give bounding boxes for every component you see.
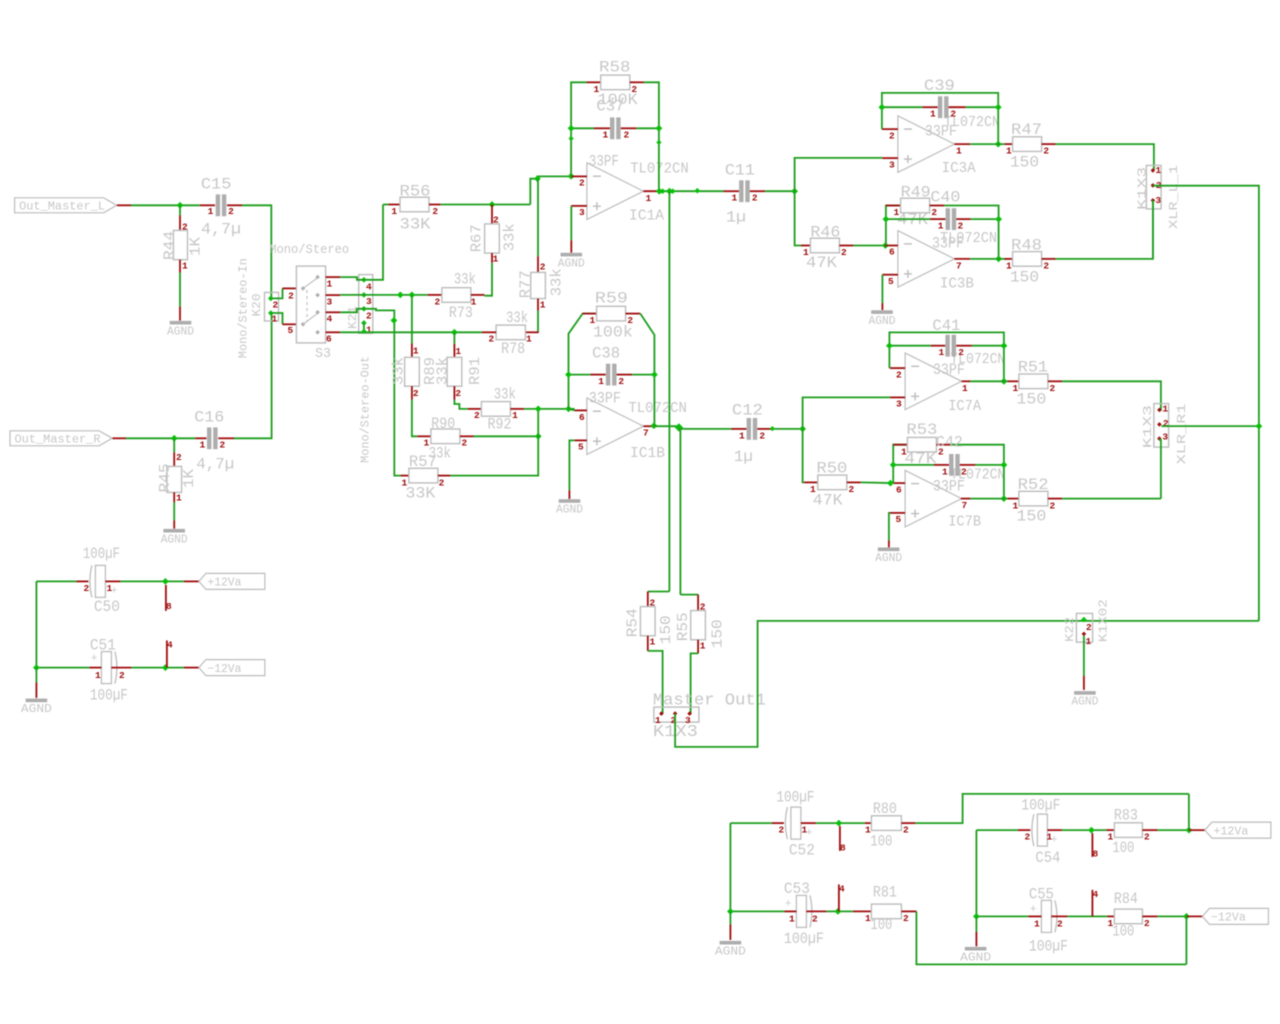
resistor R77 [537, 179, 539, 257]
svg-text:150: 150 [1016, 391, 1046, 409]
svg-text:R83: R83 [1114, 807, 1138, 825]
wire IC1A pin3 to AGND [570, 206, 572, 240]
node junction R56/R77 node [534, 175, 541, 182]
svg-text:XLR_L_1: XLR_L_1 [1167, 165, 1181, 229]
svg-text:5: 5 [288, 325, 294, 336]
svg-text:2: 2 [455, 388, 461, 399]
svg-text:5: 5 [578, 442, 584, 453]
wire R50 pin2 to IC7B pin6 [861, 481, 894, 484]
node junction row3 a [397, 292, 404, 299]
svg-text:R48: R48 [1011, 236, 1042, 254]
svg-text:100µF: 100µF [1021, 797, 1060, 815]
svg-text:2: 2 [958, 221, 964, 232]
power flag -12Va left [199, 660, 265, 676]
wire K20 pin2 to S3 pin2 [271, 288, 283, 298]
node junction AGND C53 [727, 908, 734, 915]
svg-text:AGND: AGND [167, 325, 194, 338]
wire R90 pin2 to R57 node [474, 435, 539, 437]
svg-text:150: 150 [1016, 508, 1046, 526]
resistor R50 [804, 481, 818, 483]
svg-text:33k: 33k [503, 223, 519, 251]
svg-text:2: 2 [182, 222, 188, 233]
svg-text:AGND: AGND [875, 552, 902, 565]
wire K21 pin2 down to R57 pin1 [364, 309, 401, 476]
wire R48 pin2 to XLR pin3 [1056, 200, 1153, 259]
svg-text:+: + [111, 585, 118, 597]
wire MasterOut pin2 to K22 net [675, 621, 1259, 747]
svg-text:1: 1 [598, 376, 604, 387]
svg-text:R84: R84 [1114, 890, 1138, 908]
node junction C42 left [890, 462, 897, 469]
svg-text:2: 2 [119, 670, 125, 681]
svg-text:1: 1 [956, 146, 962, 157]
svg-text:−12Va: −12Va [1211, 912, 1246, 925]
node junction after C11 [791, 188, 798, 195]
wire C15 to K20 pin2 [242, 205, 271, 298]
svg-text:R47: R47 [1011, 121, 1042, 139]
svg-text:2: 2 [841, 247, 847, 258]
pin4 stub C55 [1091, 890, 1093, 917]
svg-text:3: 3 [1162, 432, 1168, 443]
svg-text:33k: 33k [549, 268, 565, 296]
capacitor C15 [200, 204, 215, 206]
svg-text:6: 6 [579, 412, 585, 423]
svg-text:1µ: 1µ [726, 209, 746, 227]
svg-text:100µF: 100µF [784, 930, 824, 948]
node junction C40 left [883, 216, 890, 223]
svg-text:1: 1 [930, 109, 936, 120]
svg-text:R78: R78 [501, 340, 525, 358]
svg-text:R91: R91 [468, 357, 484, 385]
resistor R55 [691, 611, 706, 640]
node junction pin4 stub C53 [835, 908, 842, 915]
wire R77 pin1 to R78 pin1 [537, 311, 539, 333]
svg-text:33PF: 33PF [933, 361, 965, 379]
svg-text:33K: 33K [400, 215, 432, 233]
svg-text:R50: R50 [816, 460, 847, 478]
wire K20 pin1 to S3 pin5 [271, 313, 283, 324]
svg-text:47K: 47K [813, 491, 844, 509]
capacitor C38 [569, 374, 591, 376]
svg-text:Mono/Stereo: Mono/Stereo [269, 243, 349, 257]
node junction C40 right [995, 216, 1002, 223]
svg-text:100µF: 100µF [90, 687, 128, 705]
svg-text:3: 3 [327, 297, 333, 308]
ground AGND below IC7B [878, 548, 900, 552]
svg-text:1: 1 [366, 324, 372, 335]
op-amp IC7B [905, 470, 962, 527]
svg-text:4: 4 [839, 883, 845, 894]
svg-text:1: 1 [938, 347, 944, 358]
wire IC3B output to R48 [970, 258, 1009, 260]
ground AGND below C53 [729, 911, 731, 924]
node junction R90 branch at pin6 row [535, 406, 542, 413]
svg-text:1: 1 [1086, 636, 1092, 647]
svg-text:2: 2 [540, 261, 546, 272]
svg-text:1: 1 [789, 914, 795, 925]
svg-text:2: 2 [700, 601, 706, 612]
svg-text:Mono/Stereo-Out: Mono/Stereo-Out [359, 356, 373, 463]
wire pin6 row [569, 409, 575, 411]
svg-text:1K: 1K [189, 237, 205, 256]
svg-text:4: 4 [327, 314, 333, 325]
svg-text:2: 2 [273, 300, 279, 311]
svg-text:1: 1 [95, 670, 101, 681]
node junction on K21 pin2 wire [391, 317, 398, 324]
resistor R89 [411, 343, 413, 357]
svg-text:C42: C42 [936, 434, 963, 452]
svg-text:2: 2 [439, 478, 445, 489]
wire R55 pin1 to MasterOut pin3 [691, 653, 699, 713]
svg-text:2: 2 [176, 452, 182, 463]
wire S3 pin1 to K21 pin4 [340, 277, 364, 280]
resistor R78 [525, 331, 538, 333]
svg-text:8: 8 [166, 601, 172, 612]
svg-text:3: 3 [889, 159, 895, 170]
svg-text:100µF: 100µF [1029, 938, 1068, 956]
svg-text:33k: 33k [454, 271, 476, 289]
svg-text:4: 4 [1093, 889, 1099, 900]
wire K21 pin3 to R73 pin2 [364, 294, 428, 296]
svg-text:1: 1 [731, 193, 737, 204]
svg-text:2: 2 [649, 597, 655, 608]
svg-text:R54: R54 [626, 608, 642, 637]
svg-text:1: 1 [199, 439, 205, 450]
svg-text:5: 5 [896, 514, 902, 525]
svg-text:33k: 33k [494, 385, 516, 403]
node junction output to master-out [666, 188, 673, 195]
svg-text:AGND: AGND [715, 945, 746, 958]
wire IC1A output down to master out R54 [668, 191, 670, 591]
svg-text:8: 8 [1093, 848, 1099, 859]
resistor R58 [587, 81, 601, 83]
svg-text:7: 7 [956, 260, 962, 271]
svg-text:IC3A: IC3A [942, 161, 976, 177]
svg-text:1: 1 [512, 410, 518, 421]
svg-text:C52: C52 [789, 842, 815, 860]
svg-text:33k: 33k [392, 357, 408, 385]
svg-text:150: 150 [1010, 268, 1039, 286]
op-amp IC3A [898, 116, 955, 173]
svg-text:R45: R45 [158, 464, 174, 493]
ground AGND below C51 [35, 668, 37, 683]
resistor R91 [453, 344, 455, 358]
svg-text:3: 3 [1155, 195, 1161, 206]
svg-text:+12Va: +12Va [1213, 825, 1248, 838]
wire to IC3A pin3 [795, 158, 883, 191]
wire R67 pin1 to R73 pin1 [484, 263, 492, 296]
wire R47 pin2 to XLR pin1 [1056, 144, 1154, 169]
svg-text:6: 6 [889, 247, 895, 258]
ground AGND below R45 [173, 520, 175, 528]
op-amp IC1B [587, 398, 644, 455]
svg-text:1K: 1K [182, 469, 198, 488]
wire R81 pin2 to -12Va rail [916, 911, 1186, 964]
svg-text:C50: C50 [94, 598, 120, 616]
svg-text:1: 1 [455, 346, 461, 357]
node junction after C12 [799, 426, 806, 433]
svg-text:R55: R55 [676, 612, 692, 641]
wire to +12Va flag [184, 580, 199, 582]
svg-text:R92: R92 [488, 415, 512, 433]
wire node up to IC1B pin6 row [537, 409, 539, 436]
connector K1X3 XLR_L_1 [1146, 165, 1161, 209]
node junction -12Va [162, 664, 169, 671]
wire R51 pin2 to XLR_R1 pin1 [1062, 381, 1161, 410]
svg-text:2: 2 [228, 206, 234, 217]
svg-text:C40: C40 [930, 188, 960, 206]
node junction C41 left [886, 342, 893, 349]
svg-text:2: 2 [1024, 832, 1030, 843]
power flag -12Va right [1202, 908, 1268, 924]
svg-text:+: + [806, 827, 813, 839]
svg-text:R59: R59 [595, 289, 628, 307]
wire R56 pin2 to IC1A inverting node [441, 204, 531, 206]
wire C39 loop left [882, 93, 998, 144]
wire R53 pin2 to output vertical [951, 445, 1004, 499]
svg-text:2: 2 [579, 178, 585, 189]
node junction row6 to R91 [451, 329, 458, 336]
S3 pin 4 stub [326, 311, 341, 313]
wire C41 loop left [889, 332, 1004, 381]
wire to R54 pin2 [648, 591, 670, 593]
svg-text:2: 2 [493, 215, 499, 226]
capacitor C42 [893, 464, 934, 466]
svg-text:100: 100 [1112, 839, 1134, 857]
svg-text:AGND: AGND [556, 504, 583, 517]
svg-text:4: 4 [366, 281, 372, 292]
svg-text:2: 2 [1043, 261, 1049, 272]
svg-text:2: 2 [1086, 622, 1092, 633]
svg-text:1: 1 [327, 279, 333, 290]
wire IC1A output row [659, 190, 723, 192]
svg-text:1: 1 [391, 206, 397, 217]
node junction shield [1256, 423, 1263, 430]
svg-text:33PF: 33PF [933, 478, 965, 496]
capacitor C12 [732, 428, 747, 430]
svg-text:4: 4 [167, 639, 173, 650]
wire C16 to K20 pin1 [234, 313, 272, 438]
svg-text:3: 3 [366, 296, 372, 307]
svg-text:2: 2 [413, 388, 419, 399]
svg-text:7: 7 [643, 428, 649, 439]
node junction C41 right [1001, 342, 1008, 349]
svg-text:1: 1 [700, 641, 706, 652]
wire R58 pin2 to output vertical [644, 82, 659, 191]
power flag +12Va left [199, 573, 265, 589]
svg-text:4,7µ: 4,7µ [196, 456, 234, 474]
capacitor C41 [889, 345, 931, 347]
capacitor C39 [882, 106, 923, 108]
wire K21 pin1 to row6 [363, 323, 365, 332]
svg-text:−12Va: −12Va [207, 663, 241, 676]
svg-text:C15: C15 [201, 176, 232, 194]
svg-text:K20: K20 [250, 294, 264, 317]
ground AGND below IC1B [559, 499, 581, 503]
node junction R44 top [177, 202, 184, 209]
net flag Out_Master_L [15, 198, 117, 213]
svg-text:AGND: AGND [960, 951, 991, 964]
resistor R80 [865, 822, 872, 824]
svg-text:2: 2 [961, 466, 967, 477]
svg-text:2: 2 [752, 193, 758, 204]
svg-text:2: 2 [1050, 383, 1056, 394]
node junction +12Va [162, 578, 169, 585]
svg-text:33PF: 33PF [589, 153, 619, 171]
svg-text:1: 1 [942, 466, 948, 477]
node junction C39 right [995, 104, 1002, 111]
wire R89 pin2 to R90 pin1 [412, 400, 417, 437]
svg-text:1: 1 [938, 221, 944, 232]
svg-text:4,7µ: 4,7µ [201, 221, 241, 239]
svg-text:2: 2 [1057, 919, 1063, 930]
resistor R57 [401, 475, 409, 477]
wire R52 pin2 to XLR_R1 pin3 [1062, 498, 1161, 500]
svg-text:C16: C16 [194, 408, 224, 426]
resistor R92 [468, 408, 482, 410]
node junction C37 left [568, 125, 575, 132]
svg-text:AGND: AGND [558, 257, 585, 270]
resistor R54 [640, 607, 655, 636]
op-amp IC1A [587, 163, 644, 220]
svg-text:2: 2 [1043, 146, 1049, 157]
svg-text:2: 2 [778, 825, 784, 836]
svg-text:R67: R67 [470, 224, 486, 252]
svg-text:1: 1 [182, 261, 188, 272]
svg-text:R52: R52 [1018, 476, 1049, 494]
svg-text:2: 2 [950, 109, 956, 120]
ground AGND below IC1A [561, 253, 583, 257]
svg-text:R81: R81 [873, 884, 897, 902]
wire C54/C55 left vertical [975, 830, 977, 916]
svg-text:C54: C54 [1035, 849, 1060, 867]
svg-text:C11: C11 [725, 161, 755, 179]
node junction C39 left [879, 104, 886, 111]
resistor R67 [491, 205, 493, 224]
wire Out_Master_R to C16 [113, 437, 127, 439]
svg-text:2: 2 [618, 376, 624, 387]
node junction AGND C51 [33, 664, 40, 671]
svg-text:R77: R77 [519, 270, 535, 298]
wire to -12Va flag [184, 667, 199, 669]
wire down to R46 [795, 191, 801, 245]
svg-text:2: 2 [903, 825, 909, 836]
power flag +12Va right [1205, 822, 1271, 838]
wire R91 pin2 to R92 pin2 [454, 400, 468, 409]
wire IC3A output to R47 [970, 143, 1004, 145]
wire junction to R89 pin1 [411, 295, 413, 344]
svg-text:2: 2 [1050, 500, 1056, 511]
svg-text:3: 3 [896, 399, 902, 410]
svg-text:1: 1 [1034, 919, 1040, 930]
pin8 power stub [165, 585, 167, 611]
node junction -12Va right [1183, 913, 1190, 920]
svg-text:2: 2 [889, 130, 895, 141]
resistor R59 feedback loop [569, 314, 597, 409]
node junction row3 to R89 [409, 292, 416, 299]
node junction IC7B pin6 [887, 480, 894, 487]
svg-text:1: 1 [1155, 165, 1161, 176]
svg-text:3: 3 [579, 207, 585, 218]
wire IC3B pin5 to AGND [881, 275, 883, 303]
net flag Out_Master_R [10, 431, 112, 446]
node junction IC7B output [1001, 495, 1008, 502]
wire K22 pin1 to AGND [1083, 636, 1085, 676]
wire C52/C53 left vertical [729, 823, 731, 911]
node junction IC3B output [995, 256, 1002, 263]
wire C50 to C51 vertical [35, 581, 37, 667]
node junction output-R58 loop [656, 188, 663, 195]
svg-text:33k: 33k [506, 309, 528, 327]
svg-text:2: 2 [759, 430, 765, 441]
node junction pin8 stub C52 [836, 820, 843, 827]
svg-text:8: 8 [840, 842, 846, 853]
svg-text:2: 2 [812, 914, 818, 925]
resistor R56 [388, 204, 400, 206]
svg-text:2: 2 [848, 484, 854, 495]
wire IC3B left feedback vertical [886, 206, 901, 246]
wire IC1B pin5 to AGND [569, 440, 574, 490]
svg-text:1: 1 [208, 206, 214, 217]
svg-text:S3: S3 [315, 346, 331, 362]
svg-text:TL072CN: TL072CN [628, 401, 687, 417]
node junction C42 right [1001, 462, 1008, 469]
resistor R90 [417, 435, 431, 437]
wire S3 pin6 row to R78 pin2 [340, 331, 482, 333]
svg-text:1: 1 [646, 193, 652, 204]
svg-text:100: 100 [870, 833, 892, 851]
svg-text:1: 1 [649, 637, 655, 648]
svg-text:1: 1 [1162, 403, 1168, 414]
wire +12Va rail corner [1188, 794, 1190, 830]
svg-text:K1X3: K1X3 [1136, 167, 1150, 210]
svg-text:2: 2 [931, 207, 937, 218]
svg-text:2: 2 [623, 130, 629, 141]
svg-text:Mono/Stereo-In: Mono/Stereo-In [236, 258, 250, 358]
svg-text:2: 2 [434, 296, 440, 307]
wire K21 pin4 to R56 pin1 [364, 205, 383, 280]
svg-text:R58: R58 [599, 59, 631, 77]
svg-text:R53: R53 [906, 421, 937, 439]
connector K20 [265, 292, 279, 321]
resistor R51 [1007, 380, 1019, 382]
resistor R45 [173, 438, 175, 452]
svg-text:33PF: 33PF [589, 390, 621, 408]
svg-text:R51: R51 [1018, 359, 1048, 377]
svg-text:2: 2 [1163, 418, 1169, 429]
wire IC7B output to R52 [970, 498, 1007, 500]
svg-text:+: + [1030, 904, 1037, 916]
svg-text:5: 5 [888, 276, 894, 287]
svg-text:100: 100 [870, 916, 892, 934]
node junction IC3A output [995, 141, 1002, 148]
resistor R46 [801, 245, 811, 247]
wire XLR_L_1 pin3 to R48 output [1152, 200, 1154, 259]
capacitor C37 [571, 127, 594, 129]
svg-text:R56: R56 [400, 182, 431, 200]
wire R84 pin2 to -12Va flag [1157, 915, 1186, 917]
wire Out_Master_L to C15 [117, 204, 131, 206]
resistor R48 [1004, 258, 1012, 260]
svg-text:AGND: AGND [869, 315, 896, 328]
svg-text:R57: R57 [409, 453, 437, 471]
svg-text:33PF: 33PF [925, 123, 957, 141]
svg-text:100: 100 [1112, 923, 1134, 941]
node junction R45 top [171, 435, 178, 442]
op-amp IC7A [905, 353, 962, 410]
wire down to master out R55 [679, 429, 681, 595]
svg-text:IC1A: IC1A [629, 208, 664, 224]
